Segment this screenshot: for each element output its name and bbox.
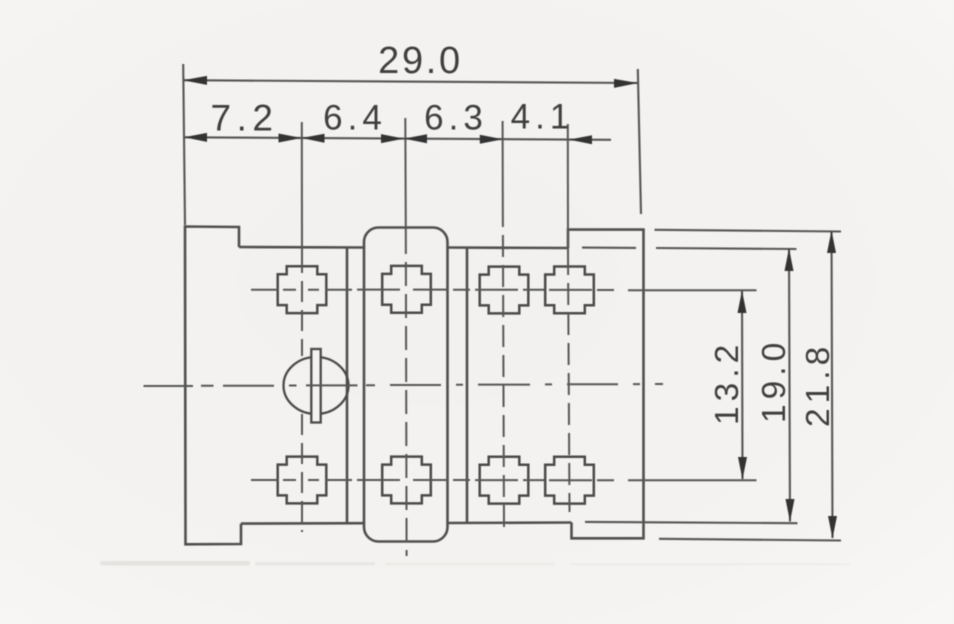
- svg-text:6.4: 6.4: [323, 99, 387, 138]
- svg-text:6.3: 6.3: [424, 99, 488, 138]
- svg-text:13.2: 13.2: [709, 340, 746, 425]
- svg-text:21.8: 21.8: [800, 342, 837, 427]
- svg-text:7.2: 7.2: [211, 98, 279, 139]
- svg-text:19.0: 19.0: [756, 338, 793, 423]
- svg-text:4.1: 4.1: [511, 98, 575, 137]
- svg-text:29.0: 29.0: [378, 40, 463, 82]
